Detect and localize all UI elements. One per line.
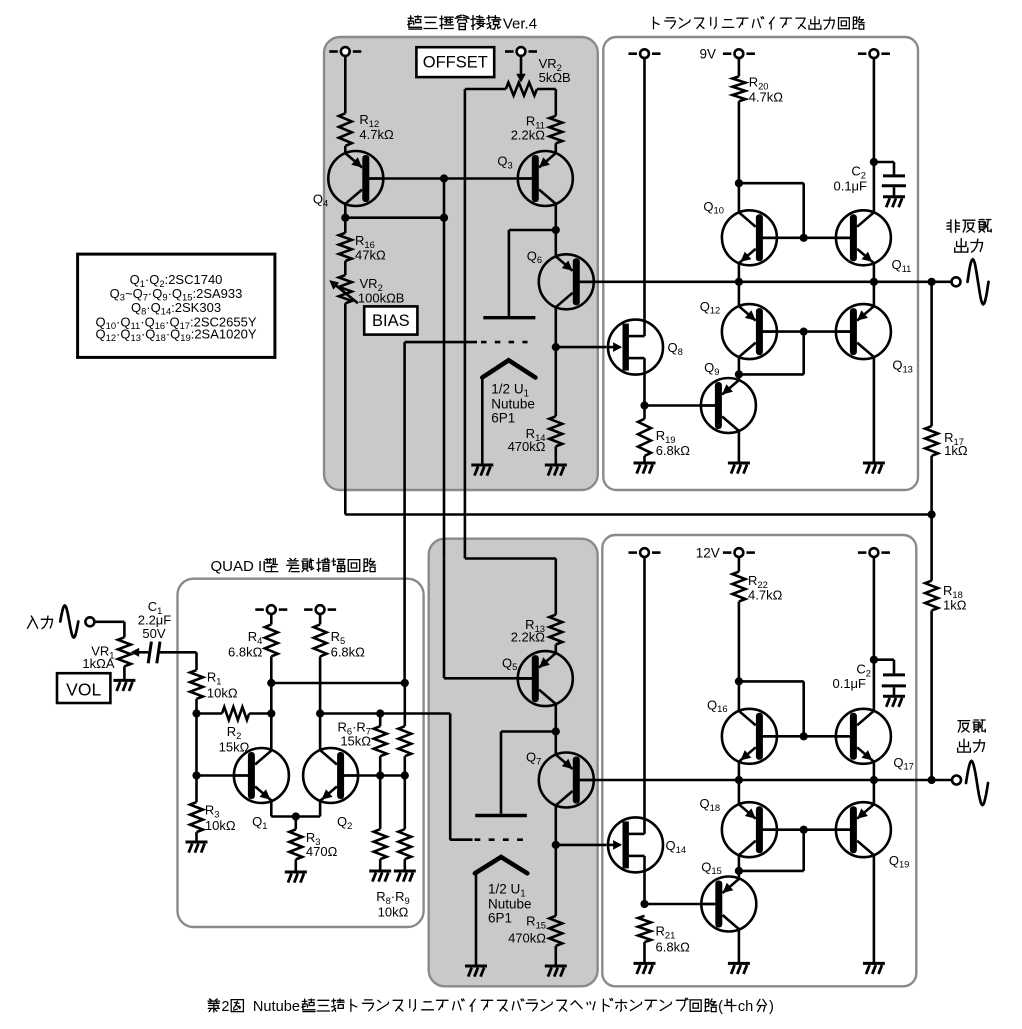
wire R21 to ground: [643, 942, 646, 963]
wire Q4 base to Q3 base: [369, 177, 532, 180]
transistor Q5 (PNP): [518, 651, 573, 706]
resistor R11: [549, 116, 562, 144]
svg-text:12V: 12V: [696, 545, 720, 560]
output line 非反転出力: [580, 280, 951, 283]
power terminal (R5): [304, 608, 313, 611]
wire: [294, 817, 297, 830]
wire Q9 collector to ground: [738, 431, 741, 463]
ground (Q15): [728, 963, 750, 974]
wire to bus (horiz): [739, 373, 804, 376]
wire to Nutube2 plate (vert): [500, 732, 503, 814]
wire terminal to R22: [738, 557, 741, 572]
svg-text:2.2kΩ: 2.2kΩ: [511, 630, 546, 645]
wire Q11 emitter to output to Q13 emitter: [873, 263, 876, 306]
filament leg to ground: [481, 378, 484, 466]
wire R16 to VR2: [344, 261, 347, 275]
label 入力: [28, 616, 38, 628]
transistor Q17 (NPN): [836, 709, 891, 764]
node Q12c/Q9e: [735, 370, 743, 378]
wire: [379, 714, 382, 727]
wire Q13 collector to ground: [873, 357, 876, 463]
node Q18c/Q15e: [735, 867, 743, 875]
wire Q18/Q19 base bus: [763, 828, 850, 831]
wire Q5 collector to Q7 emitter: [554, 704, 557, 755]
wire down to R13: [554, 559, 557, 615]
wire R17 to R18: [930, 456, 933, 581]
wire Q1 emitter down: [270, 801, 273, 817]
wire R2 to Q1 collector line: [249, 712, 271, 715]
svg-text:ch: ch: [738, 999, 753, 1015]
wire Q17 emitter to output2 to Q19 emitter: [873, 762, 876, 805]
transistor Q7 (PNP): [539, 753, 594, 808]
node R7 bottom: [401, 771, 409, 779]
wire: [270, 614, 273, 624]
wire R4 to Q1 collector: [270, 656, 273, 750]
tube grid (dashed): [405, 341, 477, 344]
title: トランスリニアバイアス出力回路: [654, 17, 660, 29]
ground (filament 2): [465, 966, 487, 977]
feedback line to R17/R18 midpoint: [345, 513, 931, 516]
svg-text:6P1: 6P1: [491, 411, 515, 426]
node R5/line: [316, 709, 324, 717]
ground (R8): [369, 871, 391, 882]
wire to bus (vert): [802, 830, 805, 871]
node Q3/Q4 base junction: [440, 174, 448, 182]
wire: [319, 614, 322, 624]
sine symbol output 1: [968, 259, 989, 304]
wire to Q5 base: [444, 677, 532, 680]
wire to bases (horiz): [739, 680, 804, 683]
wire to Q14 gate: [556, 844, 607, 847]
ground (C2b): [883, 696, 905, 707]
block: 超三極管接続Ver.4 stage (gray): [324, 37, 598, 490]
OFFSET label box: [416, 47, 494, 77]
output terminal (inverting): [952, 776, 961, 785]
wire Q2 emitter down: [319, 801, 322, 817]
transistor Q9 (PNP): [701, 378, 756, 433]
wire: [379, 859, 382, 871]
transistor Q6 (PNP): [539, 254, 594, 309]
BIAS label box: [364, 306, 417, 334]
wire terminal to Q11 collector: [873, 58, 876, 213]
wire R15 to ground: [554, 946, 557, 966]
wire R3 to ground: [195, 832, 198, 842]
wire to R13 top: [465, 557, 556, 560]
node Q16 c/b tie: [735, 677, 743, 685]
power terminal (R4): [255, 608, 263, 611]
resistor R1: [190, 670, 203, 699]
wire Q18 collector to Q15 emitter: [738, 855, 741, 879]
resistor R6: [374, 726, 387, 756]
transistor Q15 (PNP): [701, 877, 756, 932]
svg-text:470kΩ: 470kΩ: [508, 439, 546, 454]
wire Q10/Q11 base bus: [763, 237, 850, 240]
resistor R3 (470): [289, 829, 302, 859]
wire Q15 collector to ground: [738, 929, 741, 963]
svg-text:Ver.4: Ver.4: [503, 16, 537, 33]
node plate2/Q5c/Q7e: [552, 727, 560, 735]
resistor R13: [549, 615, 562, 645]
wire terminal to R12: [344, 56, 347, 113]
wire Q4 collector down to R16: [344, 204, 347, 233]
block: translinear bias output stage 9V (white): [603, 37, 918, 490]
node Q10 c/b tie: [735, 179, 743, 187]
svg-text:1kΩA: 1kΩA: [82, 656, 114, 671]
wire Q8 source down: [643, 358, 646, 405]
capacitor C2 (12V box): [883, 673, 905, 676]
wire output to R17: [930, 282, 933, 426]
node base bus 2: [800, 826, 808, 834]
resistor R8: [374, 829, 387, 859]
svg-text:Nutube: Nutube: [488, 897, 532, 912]
transistor Q16 (NPN): [722, 709, 777, 764]
wire R13 to Q5 emitter: [554, 645, 557, 654]
svg-text:OFFSET: OFFSET: [423, 54, 488, 72]
wire R14 to ground: [554, 446, 557, 465]
wire to R2: [197, 712, 223, 715]
svg-text:4.7kΩ: 4.7kΩ: [748, 588, 783, 603]
wire terminal to VR2 5k wiper: [520, 56, 523, 75]
power terminal right (9V box): [858, 52, 867, 55]
resistor R5: [314, 624, 327, 656]
power terminal (top-left of gray box): [329, 50, 338, 53]
resistor R16: [339, 233, 352, 261]
wire down to R11: [554, 89, 557, 116]
node Q7c / Q14 gate: [552, 841, 560, 849]
node output/R17: [928, 278, 936, 286]
resistor R15: [549, 916, 562, 946]
vacuum tube U1 (1/2 Nutube 6P1) upper : plate: [483, 316, 535, 319]
wire R20 to Q10 collector: [738, 101, 741, 212]
wire Q2 base to R6/R7 bottoms: [344, 774, 405, 777]
svg-text:5kΩB: 5kΩB: [539, 70, 571, 85]
junction: [440, 214, 448, 222]
FET Q8 (2SK303): [608, 320, 663, 375]
node C2b tap: [870, 656, 878, 664]
output line 反転出力: [580, 779, 952, 782]
wire down to VR1: [123, 622, 126, 638]
svg-text:VOL: VOL: [66, 680, 101, 700]
svg-text:50V: 50V: [142, 626, 165, 641]
transistor Q11 (NPN): [836, 210, 891, 265]
title: 超三極管接続Ver.4: [408, 16, 422, 29]
node output/emitters: [870, 278, 878, 286]
resistor R18: [925, 581, 938, 611]
transistor Q2 (NPN): [303, 748, 358, 803]
node R6 top: [376, 709, 384, 717]
wire R19 to ground: [643, 456, 646, 463]
svg-text:10kΩ: 10kΩ: [378, 905, 409, 920]
wire to Q9 base: [645, 404, 715, 407]
svg-text:0.1μF: 0.1μF: [832, 676, 866, 691]
ground (Q9): [728, 463, 750, 474]
block: QUAD II differential amp (white): [178, 579, 424, 927]
node C2 tap: [870, 158, 878, 166]
wire to bus (vert): [802, 332, 805, 375]
svg-text:4.7kΩ: 4.7kΩ: [359, 127, 394, 142]
svg-text:BIAS: BIAS: [372, 312, 410, 330]
wire: [403, 859, 406, 871]
wire R22 to Q16 collector: [738, 602, 741, 711]
potentiometer VR2 5k (OFFSET): [506, 83, 537, 96]
vacuum tube U1 (1/2 Nutube 6P1) lower : plate: [475, 814, 527, 817]
VR1 wiper arrowhead: [131, 648, 140, 657]
svg-text:(: (: [718, 999, 723, 1015]
svg-text:10kΩ: 10kΩ: [207, 686, 238, 701]
svg-text:4.7kΩ: 4.7kΩ: [749, 90, 784, 105]
resistor R17: [925, 426, 938, 456]
transistor Q12 (PNP): [722, 304, 777, 359]
node output2/emitters: [735, 776, 743, 784]
node output2/emitters: [870, 776, 878, 784]
node output2/R18: [928, 776, 936, 784]
potentiometer VR1 1k (VOL): [118, 637, 131, 666]
wire to C2: [874, 658, 894, 661]
resistor R2: [222, 707, 249, 720]
wire to C2: [874, 161, 894, 164]
ground (VR1): [113, 680, 135, 691]
wire down to base bus: [802, 681, 805, 736]
resistor R22: [732, 572, 745, 602]
wire grid2 feed down: [449, 714, 452, 840]
wire R11 to Q3 emitter: [554, 143, 557, 153]
wire: [403, 683, 406, 726]
resistor R12: [339, 113, 352, 146]
wire to Nutube2 plate (horiz): [501, 730, 556, 733]
wire Q19 collector to ground: [873, 855, 876, 963]
svg-text:47kΩ: 47kΩ: [355, 247, 386, 262]
svg-text:470kΩ: 470kΩ: [508, 931, 546, 946]
wire to C2 top plate: [893, 162, 896, 175]
wire to C2 top plate: [893, 660, 896, 674]
svg-text:6.8kΩ: 6.8kΩ: [228, 645, 263, 660]
wire terminal to Q8 drain: [643, 58, 646, 336]
wire Q10 emitter to output line to Q12 emitter: [738, 263, 741, 306]
transistor Q13 (PNP): [836, 304, 891, 359]
wire input to VR1: [94, 620, 124, 623]
node R1/R2: [192, 709, 200, 717]
node R4/R2: [267, 709, 275, 717]
wire: [294, 859, 297, 872]
wire: [403, 776, 406, 830]
svg-text:6.8kΩ: 6.8kΩ: [656, 940, 691, 955]
node plate/Q3c/Q6e: [552, 226, 560, 234]
tube2 filament chevron: [475, 857, 527, 873]
wire base node down (to Q5 base): [443, 179, 446, 559]
resistor R7: [398, 726, 411, 756]
ground (R15): [545, 966, 567, 977]
ground (R3): [186, 842, 208, 853]
node feedback tap: [928, 510, 936, 518]
wire Q16 emitter to output2 to Q18 emitter: [738, 762, 741, 805]
transistor Q3 (PNP): [518, 151, 573, 206]
wire pot right: [537, 88, 556, 91]
label 反転出力: [958, 721, 970, 732]
ground (C2): [883, 197, 905, 208]
wire R18 to output 2: [930, 611, 933, 781]
node R7 top: [401, 679, 409, 687]
node base bus 2: [800, 328, 808, 336]
wire to Q15 base: [645, 903, 716, 906]
power terminal (OFFSET pot): [505, 50, 514, 53]
node R1/Q1 base: [192, 771, 200, 779]
transistor Q10 (NPN): [722, 210, 777, 265]
power terminal 9V: [723, 52, 732, 55]
power terminal left (9V box): [629, 52, 638, 55]
transistor Q18 (PNP): [722, 802, 777, 857]
ground (R19): [634, 463, 656, 474]
wire: [643, 406, 646, 419]
filament leg to ground: [475, 873, 478, 966]
wire terminal to R20: [738, 58, 741, 76]
wire down to R1: [195, 652, 198, 670]
svg-text:470Ω: 470Ω: [306, 844, 338, 859]
ground (R9): [394, 871, 416, 882]
wire R1 to R3: [195, 699, 198, 802]
wire VR1 to ground: [123, 666, 126, 680]
transistor Q1 (NPN): [234, 748, 289, 803]
node R6 bottom: [376, 771, 384, 779]
node R4/R7 tap: [267, 679, 275, 687]
wire R5 to Q2 collector: [319, 656, 322, 750]
svg-text:15kΩ: 15kΩ: [340, 734, 371, 749]
wire Q12 collector to Q9 emitter: [738, 357, 741, 380]
VOL label box: [57, 673, 110, 703]
input terminal: [85, 617, 94, 626]
svg-text:6P1: 6P1: [488, 911, 512, 926]
output terminal (non-inverting): [952, 277, 961, 286]
svg-text:1kΩ: 1kΩ: [943, 598, 967, 613]
wire: [379, 756, 382, 775]
svg-text:QUAD II: QUAD II: [211, 558, 267, 575]
wire: [379, 776, 382, 830]
svg-text:Nutube: Nutube: [253, 999, 300, 1015]
ground (filament): [471, 465, 493, 476]
capacitor C2 (9V box): [883, 174, 905, 177]
wire to Nutube plate (horiz): [509, 229, 556, 232]
power terminal 12V: [723, 551, 732, 554]
svg-text:2.2kΩ: 2.2kΩ: [511, 128, 546, 143]
wire terminal to Q14 drain: [643, 557, 646, 834]
wire Q4 collector to base-line vertical: [345, 216, 444, 219]
wire VR2 bottom down to feedback line: [344, 303, 347, 514]
svg-text:2: 2: [221, 999, 229, 1015]
resistor R9: [398, 829, 411, 859]
wire C1 to R1: [159, 651, 196, 654]
svg-text:9V: 9V: [699, 47, 716, 62]
resistor R21: [638, 916, 651, 942]
ground (Q13): [863, 463, 885, 474]
node Q8s/R19/Q9 base: [640, 401, 648, 409]
block: translinear bias output stage 12V (white): [602, 535, 916, 986]
wire Q10 collector to bases (horiz): [739, 182, 804, 185]
wire grid to R7 (QUAD): [403, 342, 406, 683]
transistor Q4 (PNP): [328, 151, 383, 206]
tube filament chevron: [482, 360, 535, 377]
resistor R3 (10k): [190, 802, 203, 832]
resistor R19: [638, 419, 651, 456]
parts list box: [78, 254, 275, 357]
ground (R21): [634, 963, 656, 974]
wire Q6 collector down to R14: [554, 307, 557, 416]
node base bus: [800, 234, 808, 242]
wire Q12/Q13 base bus: [763, 330, 850, 333]
wire Q14 source down: [643, 856, 646, 904]
svg-text:6.8kΩ: 6.8kΩ: [331, 645, 366, 660]
svg-text:1kΩ: 1kΩ: [944, 443, 968, 458]
wire Q2 collector to grid2 feed: [320, 712, 450, 715]
potentiometer VR2 100k (BIAS): [339, 275, 352, 303]
VR2 wiper arrowhead: [329, 280, 339, 290]
capacitor C1: [148, 642, 151, 664]
wire Q1 collector to R7 top: [271, 682, 405, 685]
svg-text:0.1μF: 0.1μF: [833, 178, 867, 193]
wire to bus (horiz): [739, 870, 804, 873]
sine symbol input: [60, 606, 78, 638]
svg-text:Q12​·Q13​·Q18​·Q19​:2SA1020Y: Q12​·Q13​·Q18​·Q19​:2SA1020Y: [95, 326, 256, 343]
ground (R14): [545, 465, 567, 476]
wire Q7 collector down to R15: [554, 805, 557, 916]
node output/emitters: [735, 278, 743, 286]
junction: [341, 214, 349, 222]
wire to Q8 gate: [556, 346, 607, 349]
power terminal left (12V box): [629, 551, 638, 554]
ground (Q19): [863, 963, 885, 974]
VR2 wiper arrow shaft: [334, 284, 358, 304]
VR2 5k wiper arrowhead: [516, 74, 526, 83]
wire to Q1 base: [197, 774, 248, 777]
emitter bus: [271, 815, 320, 818]
svg-text:Nutube: Nutube: [491, 397, 535, 412]
node base bus: [800, 732, 808, 740]
node emitters/R3: [292, 812, 300, 820]
FET Q14 (2SK303): [608, 817, 663, 872]
sine symbol output 2: [966, 761, 988, 805]
svg-text:10kΩ: 10kΩ: [205, 818, 236, 833]
svg-text:100kΩB: 100kΩB: [358, 290, 405, 305]
resistor R4: [265, 624, 278, 656]
wire terminal to Q17 collector: [873, 557, 876, 711]
wire down to base bus: [802, 183, 805, 238]
node Q14s/R21/Q15 base: [640, 900, 648, 908]
ground (R3 470): [285, 872, 307, 883]
svg-text:6.8kΩ: 6.8kΩ: [656, 443, 691, 458]
wire pot left down: [464, 89, 467, 559]
node Q6c / Q8 gate: [552, 343, 560, 351]
resistor R14: [549, 416, 562, 446]
label 非反転出力: [947, 220, 960, 232]
wire to Nutube plate (vert): [508, 230, 511, 316]
wire R12 to Q4 emitter: [344, 146, 347, 153]
wire: [403, 756, 406, 775]
resistor R20: [732, 76, 745, 101]
wire pot left: [465, 88, 506, 91]
svg-text:): ): [769, 999, 774, 1015]
block: second triode stage (gray): [429, 539, 598, 987]
caption 第2図 Nutube超三結トランスリニアバイアスバランスヘッドホンアンプ回路(片ch分): [208, 999, 220, 1012]
tube2 grid (dashed): [450, 838, 473, 841]
wire down: [443, 559, 446, 678]
VR1 wiper wire: [134, 651, 149, 654]
wire Q3 collector to Q6 emitter: [554, 204, 557, 257]
transistor Q19 (PNP): [836, 802, 891, 857]
wire Q16/Q17 base bus: [763, 735, 850, 738]
power terminal right (12V box): [858, 551, 867, 554]
